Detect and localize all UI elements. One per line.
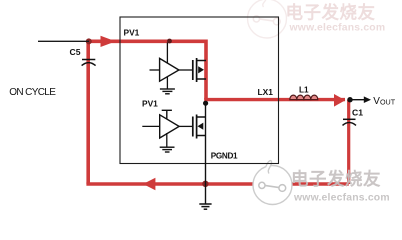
svg-text:ON CYCLE: ON CYCLE	[9, 87, 56, 98]
inductor L1	[290, 95, 318, 100]
ground (lower driver)	[160, 147, 175, 152]
current arrow LX1	[334, 94, 345, 107]
wire input	[38, 40, 89, 42]
node ground return	[202, 181, 208, 187]
transistor Q1 (high-side)	[179, 58, 206, 82]
svg-text:www.elecfans.com: www.elecfans.com	[293, 193, 390, 204]
svg-text:C1: C1	[352, 108, 363, 118]
power rail PV1 bar	[162, 110, 172, 119]
red wire top rail	[89, 41, 206, 99]
node LX1	[203, 101, 208, 106]
node PV1 rail	[167, 39, 172, 44]
red wire C1 branch	[347, 100, 350, 184]
wire LX1 to power ground	[205, 101, 207, 204]
transistor Q2 (low-side)	[179, 115, 205, 139]
svg-text:PGND1: PGND1	[211, 151, 238, 160]
svg-text:L1: L1	[299, 86, 309, 95]
svg-text:PV1: PV1	[124, 27, 140, 37]
ground (power)	[199, 204, 211, 209]
arrow to VOUT	[364, 96, 371, 103]
red wire C5 branch (left vertical)	[86, 41, 90, 184]
red wire LX1 to output	[204, 98, 345, 101]
current arrow bottom	[143, 178, 155, 191]
node VOUT	[347, 97, 352, 102]
node input	[86, 38, 92, 44]
capacitor C1	[343, 119, 357, 125]
current arrow top	[101, 36, 116, 47]
svg-text:LX1: LX1	[258, 87, 274, 97]
driver U1 (upper)	[150, 43, 179, 89]
capacitor C5	[82, 60, 96, 66]
svg-text:电子发烧友: 电子发烧友	[286, 2, 376, 22]
svg-text:电子发烧友: 电子发烧友	[291, 169, 381, 189]
driver U2 (lower)	[142, 115, 179, 147]
watermark logo	[253, 161, 292, 205]
wire to VOUT	[350, 99, 365, 101]
svg-text:PV1: PV1	[142, 99, 158, 109]
svg-text:C5: C5	[70, 47, 81, 57]
svg-text:VOUT: VOUT	[373, 96, 395, 107]
watermark logo top-right (faint)	[248, 0, 287, 38]
red wire bottom return	[86, 182, 348, 186]
IC box PV1	[120, 17, 279, 164]
ground (upper driver)	[160, 89, 175, 94]
svg-text:www.elecfans.com: www.elecfans.com	[289, 22, 386, 33]
